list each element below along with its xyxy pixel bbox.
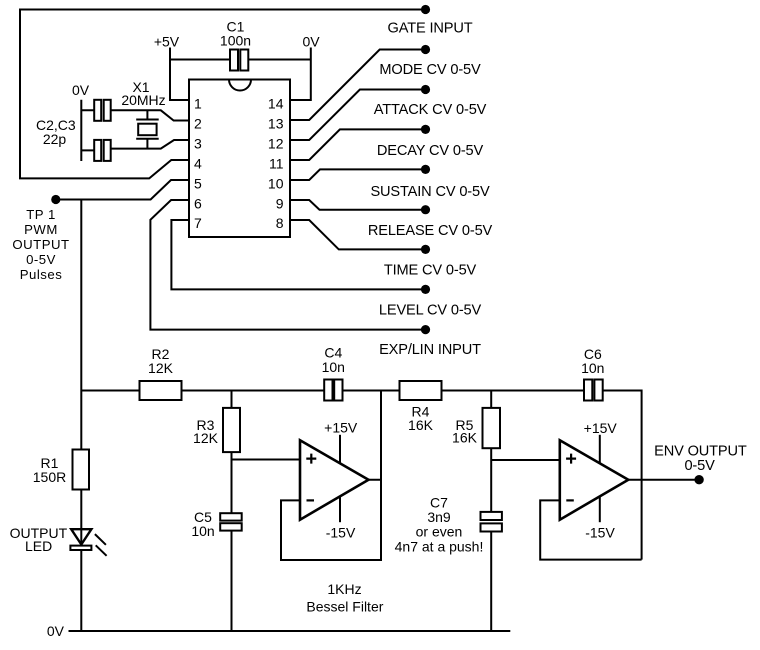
label LEVEL CV 0-5V	[379, 303, 482, 319]
svg-text:+15V: +15V	[324, 419, 358, 435]
resistor R5	[483, 408, 501, 448]
label RELEASE CV 0-5V	[368, 223, 493, 239]
label -15V U3	[585, 525, 615, 541]
pin number 10	[268, 175, 284, 191]
label R1 150R	[33, 455, 66, 485]
svg-text:16K: 16K	[452, 430, 478, 446]
power -15V stub U2	[339, 496, 341, 522]
wire: C6 right down to feedback	[603, 391, 642, 560]
wire: non-inverting input op-amp U2	[232, 459, 301, 461]
wire: R5 to C7	[490, 448, 492, 512]
resistor R4	[400, 381, 442, 400]
svg-text:10n: 10n	[322, 359, 345, 375]
pin number 11	[269, 156, 284, 172]
wire: TP1 node down to filter rail	[80, 200, 82, 391]
capacitor C7	[481, 512, 502, 532]
svg-text:SUSTAIN CV 0-5V: SUSTAIN CV 0-5V	[370, 184, 490, 200]
crystal X1	[136, 110, 159, 148]
pin number 8	[276, 215, 284, 231]
wire: 0V bottom rail	[69, 630, 511, 632]
svg-text:8: 8	[276, 215, 284, 231]
svg-text:13: 13	[268, 116, 284, 132]
label TIME CV 0-5V	[384, 262, 477, 278]
wire: 0V bus for C2 C3	[81, 100, 94, 161]
capacitor C6	[584, 380, 603, 401]
svg-text:5: 5	[194, 175, 202, 191]
svg-text:12K: 12K	[193, 430, 219, 446]
svg-text:DECAY CV 0-5V: DECAY CV 0-5V	[377, 143, 484, 159]
svg-text:OUTPUT: OUTPUT	[12, 237, 69, 252]
terminal dot MODE	[421, 45, 430, 54]
wire: pin 9 to RELEASE	[290, 200, 426, 210]
capacitor C2	[94, 100, 111, 121]
wire: pin 11 to DECAY	[290, 129, 426, 160]
wire: pin 7 to LEVEL	[171, 220, 425, 289]
label MODE CV 0-5V	[379, 62, 481, 78]
power -15V stub U3	[599, 496, 601, 522]
label R4 16K	[408, 404, 434, 433]
wire: C5 to 0V rail	[231, 531, 233, 631]
terminal dot EXP/LIN	[421, 325, 430, 334]
wire: pin 6 to EXP/LIN	[150, 200, 425, 330]
svg-text:LED: LED	[25, 538, 52, 554]
pin number 5	[194, 175, 202, 191]
svg-text:22p: 22p	[43, 131, 67, 147]
svg-text:C7: C7	[430, 494, 448, 510]
svg-text:or even: or even	[416, 523, 463, 539]
capacitor C1	[230, 50, 248, 71]
wire: +5V branch to C1	[170, 59, 230, 61]
power +15V stub U3	[599, 435, 601, 464]
svg-text:100n: 100n	[220, 32, 251, 48]
label C4 10n	[322, 344, 345, 375]
label R5 16K	[452, 417, 478, 446]
wire: non-inverting input op-amp U3	[491, 459, 560, 461]
terminal dot SUSTAIN	[421, 165, 430, 174]
capacitor C5	[220, 513, 242, 530]
wire: rail branch to R1	[80, 391, 82, 451]
label DECAY CV 0-5V	[377, 143, 484, 159]
label +15V U3	[584, 420, 618, 436]
wire: rail branch to R5	[490, 391, 492, 408]
wire: C7 to 0V rail	[490, 532, 492, 632]
wire: +5V to pin 1	[170, 48, 189, 101]
svg-text:10n: 10n	[581, 360, 604, 376]
svg-text:2: 2	[194, 116, 202, 132]
label ENV OUTPUT 0-5V	[654, 444, 747, 475]
node 0V (top) label	[302, 34, 320, 50]
label GATE INPUT	[388, 21, 473, 37]
op-amp U3	[560, 440, 629, 520]
svg-text:4n7 at a push!: 4n7 at a push!	[395, 538, 484, 554]
wire: pin 5 to TP1	[56, 180, 189, 200]
terminal dot ATTACK	[421, 85, 430, 94]
svg-text:0V: 0V	[47, 623, 65, 639]
svg-text:Pulses: Pulses	[20, 267, 63, 282]
pin number 6	[194, 195, 202, 211]
wire: R1 to LED	[80, 490, 82, 546]
svg-text:16K: 16K	[408, 417, 434, 433]
label EXP/LIN INPUT	[379, 342, 481, 358]
label SUSTAIN CV 0-5V	[370, 184, 490, 200]
label C1 100n	[220, 18, 251, 48]
svg-text:7: 7	[194, 215, 202, 231]
pin number 13	[268, 116, 284, 132]
terminal dot LEVEL	[421, 285, 430, 294]
wire: pin 8 to TIME	[290, 220, 426, 249]
svg-text:12: 12	[268, 136, 284, 152]
resistor R3	[223, 408, 240, 452]
svg-text:ATTACK CV 0-5V: ATTACK CV 0-5V	[374, 102, 487, 118]
wire: pin 13 to MODE	[290, 50, 426, 121]
label C5 10n	[191, 509, 214, 539]
label C7 3n9 or even 4n7 at a push!	[395, 494, 484, 554]
wire: U3 output to ENV OUTPUT	[628, 479, 694, 481]
label C6 10n	[581, 346, 604, 376]
pin number 9	[276, 195, 284, 211]
terminal dot RELEASE	[421, 205, 430, 214]
svg-text:0-5V: 0-5V	[684, 458, 715, 474]
svg-text:1KHz: 1KHz	[327, 581, 361, 597]
svg-text:EXP/LIN INPUT: EXP/LIN INPUT	[379, 342, 481, 358]
pin number 14	[268, 96, 284, 112]
svg-text:6: 6	[194, 195, 202, 211]
label C2,C3 22p	[36, 117, 76, 147]
pin number 4	[194, 156, 202, 172]
svg-text:1: 1	[194, 96, 202, 112]
label OUTPUT LED	[10, 525, 68, 554]
wire: R4 to C6	[442, 390, 585, 392]
wire: C4 to R4	[343, 390, 400, 392]
svg-text:-15V: -15V	[326, 525, 356, 541]
label X1 20MHz	[121, 79, 165, 108]
svg-text:12K: 12K	[148, 360, 174, 376]
svg-text:11: 11	[269, 156, 284, 172]
wire: LED to 0V rail	[80, 550, 82, 631]
node 0V (left) label	[72, 82, 90, 98]
pin number 2	[194, 116, 202, 132]
wire: pin 2 to crystal top	[111, 110, 189, 120]
capacitor C3	[94, 140, 111, 161]
wire: pin 12 to ATTACK	[290, 90, 426, 141]
pin number 7	[194, 215, 202, 231]
svg-text:+5V: +5V	[154, 34, 180, 50]
terminal dot ENV OUTPUT	[694, 475, 703, 484]
label -15V U2	[326, 525, 356, 541]
svg-text:0V: 0V	[302, 34, 320, 50]
power +15V stub U2	[339, 435, 341, 464]
svg-text:+15V: +15V	[584, 420, 618, 436]
terminal dot TIME	[421, 245, 430, 254]
label ATTACK CV 0-5V	[374, 102, 487, 118]
svg-text:TP 1: TP 1	[26, 207, 56, 222]
wire: pin 10 to SUSTAIN	[290, 169, 426, 180]
wire: GATE INPUT net (pin 4 around left frame to top)	[20, 10, 426, 179]
label 1KHz Bessel Filter	[306, 581, 383, 614]
pin number 1	[194, 96, 202, 112]
svg-text:GATE INPUT: GATE INPUT	[388, 21, 473, 37]
svg-text:20MHz: 20MHz	[121, 92, 165, 108]
svg-text:10n: 10n	[191, 523, 214, 539]
svg-text:MODE CV 0-5V: MODE CV 0-5V	[379, 62, 481, 78]
svg-text:3: 3	[194, 136, 202, 152]
svg-text:LEVEL CV 0-5V: LEVEL CV 0-5V	[379, 303, 482, 319]
label TP 1 PWM OUTPUT 0-5V Pulses	[12, 207, 69, 282]
svg-text:10: 10	[268, 175, 284, 191]
svg-text:14: 14	[268, 96, 284, 112]
wire: U3 feedback loop	[540, 500, 641, 559]
wire: rail branch to R3	[231, 391, 233, 408]
svg-text:C4: C4	[324, 344, 342, 360]
svg-text:9: 9	[276, 195, 284, 211]
IC U1 body	[189, 80, 290, 238]
wire: rail to R2	[81, 390, 139, 392]
pin number 3	[194, 136, 202, 152]
svg-text:0V: 0V	[72, 82, 90, 98]
svg-text:PWM: PWM	[24, 222, 58, 237]
svg-text:0-5V: 0-5V	[26, 252, 56, 267]
pin number 12	[268, 136, 284, 152]
capacitor C4	[324, 380, 342, 401]
node 0V (bottom) label	[47, 623, 65, 639]
svg-text:RELEASE CV 0-5V: RELEASE CV 0-5V	[368, 223, 493, 239]
svg-text:Bessel Filter: Bessel Filter	[306, 598, 383, 614]
wire: R2 to C4	[182, 390, 325, 392]
svg-text:-15V: -15V	[585, 525, 615, 541]
svg-text:150R: 150R	[33, 469, 66, 485]
node +5V label	[154, 34, 180, 50]
label R3 12K	[193, 417, 219, 446]
wire: 0V to pin 14	[290, 48, 311, 101]
wire: C1 to 0V	[248, 59, 310, 61]
svg-text:TIME CV 0-5V: TIME CV 0-5V	[384, 262, 477, 278]
terminal dot TP1	[51, 195, 60, 204]
label +15V U2	[324, 419, 358, 435]
wire: R3 to C5	[231, 452, 233, 513]
terminal dot GATE INPUT	[421, 5, 430, 14]
op-amp U2	[300, 440, 369, 520]
wire: pin 3 to crystal bottom	[111, 140, 189, 149]
resistor R2	[140, 381, 182, 400]
svg-text:4: 4	[194, 156, 202, 172]
label R2 12K	[148, 346, 174, 376]
terminal dot DECAY	[421, 125, 430, 134]
wire: U2 output and feedback loop	[281, 391, 381, 561]
resistor R1	[73, 450, 90, 490]
LED output diode	[70, 529, 106, 556]
